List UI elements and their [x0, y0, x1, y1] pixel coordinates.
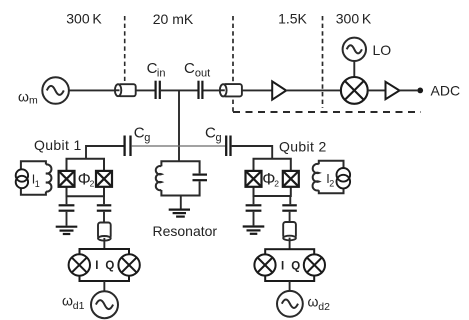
capacitor Cin [156, 81, 160, 99]
wire Cout to attenuator2 [204, 89, 221, 91]
wire Cin to Cout through node [161, 89, 198, 91]
wire attenuator1 to Cin [136, 89, 155, 91]
amplifier A2 [386, 82, 400, 99]
mixer M1 [341, 77, 368, 104]
wire amp1 to mixer [286, 89, 341, 91]
node ADC (junction dot) [417, 88, 423, 94]
wire node to resonator feed [178, 90, 180, 161]
capacitor Cg (right) [226, 136, 230, 157]
wire resonator node to Cg right (thin) [179, 145, 225, 147]
qubit2 drive stem [289, 196, 291, 204]
qubit1 cap-to-ground stem [66, 196, 68, 204]
wire LO to mixer [353, 61, 355, 77]
svg-text:LO: LO [373, 42, 392, 58]
amplifier A1 [272, 81, 286, 99]
ground Q1 [56, 227, 78, 234]
svg-text:I: I [95, 260, 98, 272]
qubit2 SQUID loop wires [254, 159, 291, 196]
svg-text:Qubit 1: Qubit 1 [34, 137, 82, 153]
svg-text:d2: d2 [318, 301, 330, 313]
svg-text:C: C [134, 124, 145, 141]
svg-text:ω: ω [308, 294, 319, 310]
wire qubit1 to Cg left (thick) [86, 146, 124, 159]
dashed stage boundary 20mK/1.5K [232, 16, 234, 112]
capacitor Q1 drive [97, 205, 112, 210]
svg-text:2: 2 [329, 179, 334, 189]
josephson junction Q1 right [96, 171, 112, 187]
wire amp2 to ADC node [400, 89, 418, 91]
resonator loop [156, 161, 200, 195]
svg-text:Resonator: Resonator [153, 223, 218, 239]
flux bias loop I2 [313, 161, 344, 193]
wire attenuator2 to amp1 [242, 89, 272, 91]
wire cap to filter Q1 [103, 212, 105, 223]
svg-text:C: C [184, 60, 195, 77]
capacitor Q2 drive [282, 205, 297, 210]
wire mixer to amp2 [368, 89, 386, 91]
source wm [42, 77, 69, 104]
attenuator (1.5K stage) [220, 84, 242, 96]
resonator capacitor [193, 175, 208, 181]
wire cap to ground Q2 [253, 212, 255, 226]
josephson junction Q1 left [59, 171, 75, 187]
wire IQ to source Q1 [103, 281, 105, 291]
svg-text:I: I [281, 260, 284, 272]
josephson junction Q2 left [246, 171, 262, 187]
source LO [343, 38, 366, 61]
svg-text:Q: Q [105, 260, 114, 272]
wire cap to ground Q1 [66, 212, 68, 226]
svg-text:ω: ω [62, 293, 73, 309]
capacitor Cg (left) [125, 136, 131, 157]
ground Q2 [243, 227, 265, 234]
wire wm to attenuator1 [68, 89, 116, 91]
svg-text:g: g [216, 132, 222, 144]
svg-text:g: g [144, 132, 150, 144]
attenuator (300K input) [115, 84, 136, 96]
IQ mixer Q2 [254, 249, 325, 281]
current source I1 [16, 169, 28, 188]
svg-text:Qubit 2: Qubit 2 [279, 139, 327, 155]
current source I2 [337, 168, 351, 188]
svg-text:C: C [205, 124, 216, 141]
wire resonator to ground [180, 196, 182, 210]
capacitor Q1 shunt [59, 205, 75, 210]
svg-text:1: 1 [35, 179, 40, 189]
dashed stage boundary 300K/20mK [124, 16, 126, 81]
flux bias loop I1 [21, 161, 52, 195]
wire tick into attenuator1 [116, 89, 120, 91]
source wd2 [277, 291, 303, 317]
wire filter to IQ mixer Q2 [289, 238, 291, 250]
svg-text:d1: d1 [73, 300, 85, 312]
wire Cg left to resonator node (thin) [132, 145, 179, 147]
dashed stage boundary 1.5K/300K [322, 16, 324, 108]
svg-text:300 K: 300 K [66, 11, 102, 27]
capacitor Q2 shunt [246, 205, 262, 210]
svg-text:in: in [157, 68, 166, 80]
svg-text:2: 2 [90, 178, 95, 188]
source wd1 [91, 291, 118, 318]
wire filter to IQ mixer Q1 [103, 238, 105, 249]
ground resonator [169, 210, 190, 217]
filter (cylinder) Q2 [283, 222, 296, 240]
svg-text:out: out [195, 68, 210, 80]
svg-text:Q: Q [291, 260, 300, 272]
IQ mixer Q1 [69, 249, 140, 281]
qubit2 cap-to-ground stem [253, 196, 255, 204]
filter (cylinder) Q1 [98, 223, 111, 241]
svg-text:2: 2 [274, 178, 279, 188]
wire tick into attenuator2 [221, 89, 225, 91]
qubit1 drive stem [103, 196, 105, 204]
qubit1 SQUID loop wires [67, 159, 105, 197]
josephson junction Q2 right [283, 171, 299, 187]
dashed stage boundary bottom [233, 111, 421, 113]
svg-text:ADC: ADC [431, 83, 461, 99]
svg-text:1.5K: 1.5K [278, 11, 307, 27]
svg-text:20 mK: 20 mK [153, 11, 194, 27]
capacitor Cout [199, 81, 203, 99]
svg-text:300 K: 300 K [336, 11, 372, 27]
wire Cg right to qubit2 (thick) [232, 146, 273, 159]
wire cap to filter Q2 [289, 212, 291, 223]
wire IQ to source Q2 [289, 281, 291, 292]
